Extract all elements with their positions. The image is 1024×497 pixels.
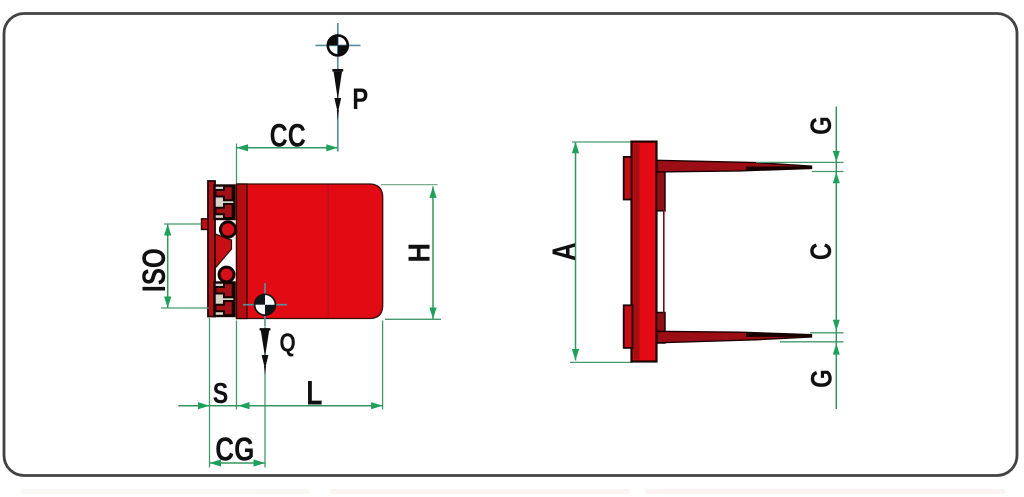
P crosshair horizontal centerline <box>316 44 361 46</box>
upper mounting block <box>624 157 632 200</box>
dimension ISO line <box>164 224 171 308</box>
dimension CG line <box>210 459 266 466</box>
G top lower extension <box>812 171 844 173</box>
block left dark strip <box>237 184 248 319</box>
hook housing top <box>215 186 235 220</box>
svg-text:G: G <box>804 369 838 388</box>
svg-text:P: P <box>352 81 368 115</box>
A bottom extension <box>570 361 633 363</box>
lower mounting block <box>624 305 633 348</box>
L right extension line <box>382 321 384 410</box>
Q centerline teal <box>264 283 266 327</box>
dimension ISO top extension <box>164 223 202 225</box>
lower fork arm <box>657 331 812 343</box>
G top upper extension <box>756 161 844 163</box>
linkage wedge <box>215 234 231 268</box>
faceplate inner shade <box>634 144 640 360</box>
faint cropped row below frame <box>20 489 1005 494</box>
svg-text:ISO: ISO <box>137 248 172 292</box>
svg-text:L: L <box>306 374 322 412</box>
A top extension <box>572 141 632 143</box>
svg-text:H: H <box>403 243 437 263</box>
P centerline <box>337 23 339 152</box>
svg-text:CG: CG <box>215 432 254 469</box>
upper fork arm <box>657 160 812 172</box>
lower fork tip wedge <box>746 333 812 337</box>
svg-text:CC: CC <box>270 118 306 154</box>
dimension CC line <box>237 144 338 151</box>
faceplate bar <box>632 142 657 362</box>
dimension H bottom extension <box>385 318 441 320</box>
clamp body block <box>237 184 383 319</box>
svg-text:Q: Q <box>280 328 296 357</box>
P load-center symbol <box>328 35 348 55</box>
svg-text:S: S <box>213 376 228 409</box>
Q crosshair horizontal centerline <box>243 304 287 306</box>
L left extension line <box>236 321 238 410</box>
Q load-center symbol <box>255 294 276 315</box>
block separator line <box>327 185 329 318</box>
G bottom upper extension <box>810 332 844 334</box>
S extension line (hook face) <box>209 318 211 468</box>
G bottom lower extension <box>780 341 844 343</box>
plate left tab <box>202 219 209 230</box>
svg-text:A: A <box>548 242 583 261</box>
Q vertical green line <box>264 327 266 468</box>
hook housing bottom <box>215 283 235 317</box>
upper arm heel <box>657 161 666 211</box>
dimension ISO bottom extension <box>161 307 209 309</box>
dimension CC extension line <box>236 144 238 184</box>
dimension G/C/G line <box>833 107 840 410</box>
upper fork tip wedge <box>746 166 812 170</box>
roller circle lower <box>219 267 234 282</box>
Q force arrow <box>260 328 271 375</box>
dimension H line <box>429 186 436 319</box>
rail line <box>663 210 665 313</box>
roller circle upper <box>220 222 235 237</box>
svg-text:C: C <box>803 243 837 260</box>
lower arm heel <box>657 313 666 344</box>
P force arrow <box>332 69 343 121</box>
dimension S/L line <box>178 402 382 409</box>
svg-text:G: G <box>803 116 837 135</box>
dimension A line <box>572 142 579 361</box>
dimension H top extension <box>381 184 438 186</box>
carriage plate <box>208 181 215 317</box>
